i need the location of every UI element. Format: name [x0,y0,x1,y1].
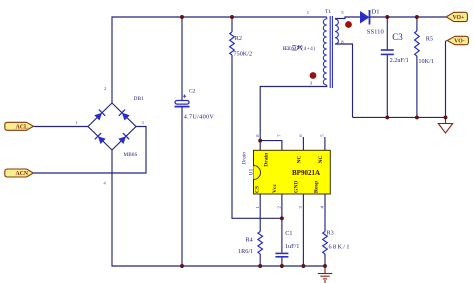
svg-text:8: 8 [255,134,260,137]
svg-text:C2: C2 [189,89,196,95]
svg-text:R4: R4 [246,237,253,244]
svg-text:Vcc: Vcc [272,183,278,193]
svg-text:C3: C3 [392,32,403,42]
svg-text:5: 5 [320,134,325,137]
svg-text:5: 5 [341,10,344,15]
svg-text:3: 3 [298,206,303,209]
svg-text:VO-: VO- [454,39,465,45]
svg-text:2: 2 [104,86,106,91]
svg-text:750K/2: 750K/2 [234,51,253,58]
svg-text:3: 3 [142,120,145,125]
svg-text:U1: U1 [248,168,254,175]
svg-text:SS110: SS110 [367,28,385,35]
svg-text:Drain: Drain [264,152,270,167]
svg-text:D1: D1 [372,9,380,16]
svg-text:R5: R5 [426,36,433,43]
svg-text:R2: R2 [235,35,242,42]
svg-text:CS: CS [254,186,260,193]
svg-text:VO+: VO+ [452,15,464,21]
svg-text:T1: T1 [325,9,331,15]
svg-text:Rosp: Rosp [314,181,320,193]
svg-text:GND: GND [294,181,300,193]
svg-text:2.2uF/1: 2.2uF/1 [390,57,409,64]
svg-text:1uF/1: 1uF/1 [285,243,299,250]
svg-text:3: 3 [310,80,313,85]
svg-text:1: 1 [76,120,78,125]
svg-text:1: 1 [255,206,260,209]
svg-text:1: 1 [307,10,310,15]
svg-text:7: 7 [277,134,282,137]
svg-text:(4+4): (4+4) [301,47,315,52]
svg-text:NC: NC [318,155,324,163]
svg-text:EE10: EE10 [283,47,293,52]
svg-text:BP9021A: BP9021A [292,169,320,177]
svg-text:ACN: ACN [16,171,29,177]
svg-text:2: 2 [277,206,282,209]
svg-text:NC: NC [296,155,302,163]
svg-text:4.7U/400V: 4.7U/400V [184,114,215,121]
svg-text:C1: C1 [285,230,292,237]
svg-text:DB1: DB1 [134,96,145,102]
svg-text:4: 4 [104,181,107,186]
svg-text:1R6/1: 1R6/1 [238,248,253,255]
svg-text:Drain: Drain [242,152,248,166]
svg-text:R3: R3 [327,230,334,237]
svg-text:68K/1: 68K/1 [329,244,350,251]
svg-text:ACL: ACL [16,124,28,130]
svg-text:MB6S: MB6S [124,152,138,158]
svg-text:10K/1: 10K/1 [418,58,433,65]
svg-text:6: 6 [298,134,303,137]
svg-text:4: 4 [320,206,325,209]
